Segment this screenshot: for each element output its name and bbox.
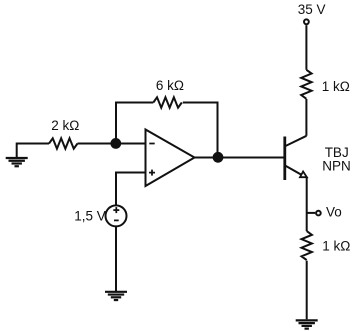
svg-text:2 kΩ: 2 kΩ [51,118,79,133]
svg-text:6 kΩ: 6 kΩ [156,78,184,93]
svg-text:1,5 V: 1,5 V [74,209,106,224]
svg-text:Vo: Vo [326,205,342,220]
svg-text:1 kΩ: 1 kΩ [322,239,350,254]
svg-text:35 V: 35 V [298,2,326,17]
svg-text:NPN: NPN [322,159,351,174]
svg-text:TBJ: TBJ [325,145,349,160]
svg-text:1 kΩ: 1 kΩ [322,79,350,94]
